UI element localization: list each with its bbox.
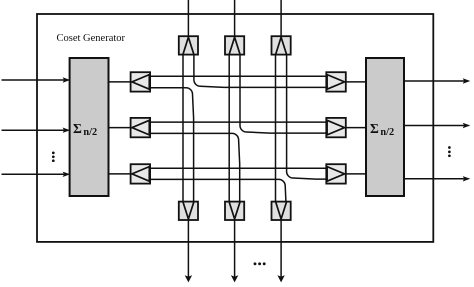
svg-text:Coset Generator: Coset Generator [57,33,126,44]
